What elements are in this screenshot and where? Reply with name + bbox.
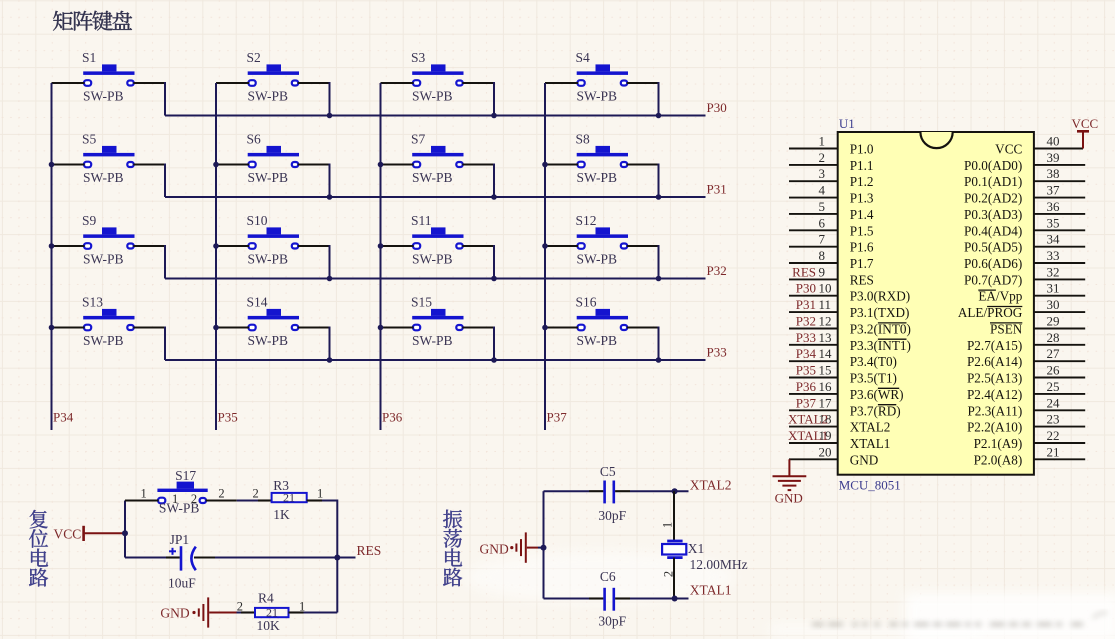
svg-text:20: 20 [819, 444, 832, 459]
junction row bus 3 col 3 [491, 276, 497, 282]
wire: junction to capacitor JP1 [125, 557, 166, 559]
wire: C5 to XTAL2 node [630, 490, 689, 492]
wire: S14 drop to row bus [329, 327, 331, 361]
resistor R3 [272, 478, 307, 522]
svg-text:S8: S8 [576, 132, 591, 147]
svg-text:13: 13 [819, 330, 832, 345]
op: MCU chip U1 body [838, 132, 1034, 475]
svg-text:38: 38 [1047, 166, 1060, 181]
svg-text:SW-PB: SW-PB [248, 88, 289, 103]
svg-text:21: 21 [283, 490, 295, 504]
switch S11 (SW-PB push button) [411, 213, 464, 266]
svg-text:21: 21 [1047, 444, 1060, 459]
capacitor C6 (30pF) [598, 569, 626, 628]
power port VCC (reset) [54, 526, 84, 542]
svg-text:P0.5(AD5): P0.5(AD5) [964, 240, 1022, 255]
svg-text:P33: P33 [707, 345, 727, 360]
wire: S7 left pin lead [381, 163, 414, 165]
svg-text:PSEN: PSEN [990, 322, 1023, 337]
svg-text:4: 4 [819, 183, 826, 198]
pin 19 lead [789, 442, 838, 444]
wire: S16 left pin lead [545, 326, 578, 328]
wire: S10 right pin lead [298, 245, 330, 247]
svg-text:11: 11 [819, 297, 832, 312]
svg-text:P0.4(AD4): P0.4(AD4) [964, 223, 1022, 238]
junction row bus 3 col 2 [327, 276, 333, 282]
junction row bus 1 col 4 [656, 113, 662, 119]
junction col 3 row 2 [378, 162, 384, 168]
svg-text:2: 2 [819, 150, 826, 165]
switch S10 (SW-PB push button) [247, 213, 300, 266]
pin 32 lead [1034, 278, 1085, 280]
pin 35 lead [1034, 229, 1085, 231]
pin 5 lead [789, 213, 838, 215]
junction row bus 2 col 3 [491, 194, 497, 200]
wire: S13 drop to row bus [164, 327, 166, 361]
switch S9 (SW-PB push button) [82, 213, 135, 266]
svg-text:VCC: VCC [1072, 116, 1099, 131]
wire: S17 pin2 lead [206, 499, 237, 501]
pin 15 lead [789, 377, 838, 379]
svg-text:X1: X1 [688, 541, 705, 556]
pin 18 lead [789, 426, 838, 428]
junction row bus 2 col 4 [656, 194, 662, 200]
svg-text:P2.5(A13): P2.5(A13) [967, 371, 1022, 386]
svg-text:S5: S5 [82, 132, 97, 147]
wire: crystal to XTAL1 node [673, 558, 675, 599]
wire: row bus 2 (net P31) [165, 196, 706, 198]
svg-text:S11: S11 [411, 213, 432, 228]
wire: R3 to right vertical, down to RES node [322, 501, 337, 558]
switch S4 (SW-PB push button) [576, 50, 629, 103]
svg-text:XTAL2: XTAL2 [690, 477, 732, 492]
pin 20 lead [789, 458, 838, 460]
svg-text:P2.6(A14): P2.6(A14) [967, 354, 1022, 369]
svg-text:P33: P33 [796, 330, 816, 345]
svg-text:XTAL1: XTAL1 [690, 583, 732, 598]
wire: S6 left pin lead [216, 163, 249, 165]
pin 37 lead [1034, 197, 1085, 199]
wire: column 1 vertical (net P34) [51, 83, 53, 430]
svg-text:SW-PB: SW-PB [577, 170, 618, 185]
junction col 4 row 2 [542, 162, 548, 168]
svg-text:S12: S12 [576, 213, 597, 228]
svg-text:SW-PB: SW-PB [577, 251, 618, 266]
pin 1 lead [789, 148, 838, 150]
power port VCC at pin 40 [1072, 116, 1099, 149]
svg-text:12: 12 [819, 314, 832, 329]
svg-text:P34: P34 [796, 346, 817, 361]
wire: S5 right pin lead [133, 163, 165, 165]
wire: RES node down to R4 row [336, 558, 338, 613]
svg-text:P0.6(AD6): P0.6(AD6) [964, 256, 1022, 271]
wire: S14 right pin lead [298, 326, 330, 328]
svg-text:2: 2 [253, 486, 259, 500]
pin 31 lead [1034, 295, 1085, 297]
wire: S8 drop to row bus [658, 164, 660, 198]
wire: row bus 3 (net P32) [165, 278, 706, 280]
wire: C6 pin lead right [615, 597, 630, 599]
section label 复位电路 (reset circuit) [29, 510, 48, 587]
svg-text:29: 29 [1047, 314, 1060, 329]
ground symbol at pin 20 [773, 476, 807, 490]
svg-text:SW-PB: SW-PB [577, 88, 618, 103]
svg-text:SW-PB: SW-PB [83, 333, 124, 348]
svg-text:P2.4(A12): P2.4(A12) [967, 387, 1022, 402]
svg-text:P1.4: P1.4 [850, 207, 874, 222]
pin 4 lead [789, 197, 838, 199]
wire: ground to R4 (navy segment) [237, 612, 242, 614]
svg-text:RES: RES [357, 543, 382, 558]
junction col 2 row 2 [213, 162, 219, 168]
svg-text:XTAL1: XTAL1 [788, 428, 828, 443]
svg-text:P0.2(AD2): P0.2(AD2) [964, 191, 1022, 206]
wire: row bus 1 (net P30) [165, 115, 706, 117]
pin 2 lead [789, 164, 838, 166]
svg-text:C6: C6 [600, 569, 616, 584]
svg-text:P3.7(RD): P3.7(RD) [850, 403, 901, 418]
svg-text:SW-PB: SW-PB [83, 88, 124, 103]
wire: row bus 4 (net P33) [165, 359, 706, 361]
svg-text:P36: P36 [382, 410, 403, 425]
wire: JP1 to RES node [215, 557, 337, 559]
switch S17 (SW-PB push button) [157, 468, 207, 516]
svg-text:30pF: 30pF [598, 508, 626, 523]
wire: JP1 pin lead right [194, 556, 215, 558]
ground symbol (reset, rotated) [192, 597, 208, 627]
svg-text:P34: P34 [53, 410, 74, 425]
capacitor C5 (30pF) [598, 464, 626, 523]
switch S1 (SW-PB push button) [82, 50, 135, 103]
wire: S7 right pin lead [462, 163, 494, 165]
pin 7 lead [789, 246, 838, 248]
svg-text:SW-PB: SW-PB [83, 170, 124, 185]
wire: S1 left pin lead [52, 82, 85, 84]
capacitor JP1 (polarized, 10uF) [168, 532, 196, 590]
svg-text:P31: P31 [796, 297, 816, 312]
wire: S2 drop to row bus [329, 82, 331, 116]
wire: ground to R4 (red segment) [209, 612, 236, 614]
pin 26 lead [1034, 377, 1085, 379]
svg-text:P2.0(A8): P2.0(A8) [974, 452, 1023, 467]
svg-text:10K: 10K [257, 618, 281, 633]
svg-text:10uF: 10uF [168, 575, 196, 590]
svg-text:2: 2 [237, 600, 243, 614]
svg-text:6: 6 [819, 215, 826, 230]
svg-text:RES: RES [792, 264, 816, 279]
wire: S15 left pin lead [381, 326, 414, 328]
svg-text:33: 33 [1047, 248, 1060, 263]
switch S7 (SW-PB push button) [411, 132, 464, 185]
svg-text:P3.4(T0): P3.4(T0) [850, 354, 897, 369]
wire: S5 drop to row bus [164, 164, 166, 198]
junction col 3 row 4 [378, 325, 384, 331]
svg-text:P3.2(INT0): P3.2(INT0) [850, 322, 911, 337]
junction col 2 row 4 [213, 325, 219, 331]
svg-text:R4: R4 [258, 591, 274, 606]
pin 38 lead [1034, 180, 1085, 182]
switch S8 (SW-PB push button) [576, 132, 629, 185]
wire: VCC to junction [85, 532, 125, 534]
svg-text:1: 1 [299, 600, 305, 614]
svg-text:MCU_8051: MCU_8051 [839, 478, 901, 493]
svg-text:14: 14 [819, 346, 833, 361]
svg-text:1: 1 [819, 134, 826, 149]
wire: JP1 pin lead left [166, 556, 180, 558]
svg-text:P36: P36 [796, 379, 817, 394]
wire: column 4 vertical (net P37) [544, 83, 546, 430]
wire: oscillator left vertical [543, 491, 545, 598]
wire: S4 drop to row bus [658, 82, 660, 116]
junction XTAL1 node [672, 596, 678, 602]
svg-text:34: 34 [1047, 232, 1061, 247]
wire: RES stub [337, 557, 355, 559]
svg-text:35: 35 [1047, 215, 1060, 230]
svg-text:1: 1 [172, 492, 178, 506]
wire: to C6 [544, 598, 590, 600]
wire: S7 drop to row bus [493, 164, 495, 198]
pin 30 lead [1034, 311, 1085, 313]
junction reset-left [122, 530, 128, 536]
svg-text:XTAL2: XTAL2 [850, 420, 891, 435]
pin 40 lead [1034, 148, 1083, 150]
svg-text:1: 1 [141, 486, 147, 500]
junction XTAL2 node [672, 488, 678, 494]
wire: S12 right pin lead [627, 245, 659, 247]
svg-text:GND: GND [775, 491, 803, 506]
svg-text:S4: S4 [576, 50, 591, 65]
junction col 1 row 2 [49, 162, 55, 168]
junction col 4 row 4 [542, 325, 548, 331]
junction row bus 4 col 2 [327, 357, 333, 363]
svg-text:S14: S14 [247, 295, 268, 310]
svg-text:P2.7(A15): P2.7(A15) [967, 338, 1022, 353]
svg-text:P0.0(AD0): P0.0(AD0) [964, 158, 1022, 173]
svg-text:12.00MHz: 12.00MHz [690, 557, 748, 572]
section label 振荡电路 (oscillator circuit) [443, 510, 462, 587]
svg-text:GND: GND [480, 541, 509, 556]
svg-text:36: 36 [1047, 199, 1061, 214]
svg-text:P1.3: P1.3 [850, 191, 874, 206]
wire: to C5 [544, 490, 590, 492]
wire: S17 to R3 [237, 500, 258, 502]
svg-text:P1.1: P1.1 [850, 158, 874, 173]
junction row bus 4 col 4 [656, 357, 662, 363]
wire: S5 left pin lead [52, 163, 85, 165]
pin 28 lead [1034, 344, 1085, 346]
wire: R4 pin2 lead [241, 611, 255, 613]
svg-text:P1.5: P1.5 [850, 223, 874, 238]
pin 29 lead [1034, 328, 1085, 330]
pin 27 lead [1034, 360, 1085, 362]
svg-text:EA/Vpp: EA/Vpp [978, 289, 1022, 304]
svg-text:31: 31 [1047, 281, 1060, 296]
wire: S16 drop to row bus [658, 327, 660, 361]
wire: C6 to XTAL1 node [630, 598, 689, 600]
wire: S3 drop to row bus [493, 82, 495, 116]
pin 21 lead [1034, 458, 1085, 460]
chip notch [920, 132, 952, 148]
wire: C5 pin lead right [615, 490, 630, 492]
svg-text:S16: S16 [576, 295, 597, 310]
svg-text:5: 5 [819, 199, 826, 214]
wire: S9 drop to row bus [164, 245, 166, 279]
switch S15 (SW-PB push button) [411, 295, 464, 348]
svg-text:7: 7 [819, 232, 826, 247]
crystal X1 (12.00MHz) [662, 541, 748, 572]
svg-text:P3.1(TXD): P3.1(TXD) [850, 305, 910, 320]
svg-text:9: 9 [819, 264, 826, 279]
svg-text:ALE/PROG: ALE/PROG [958, 305, 1023, 320]
wire: XTAL2 node down to crystal [673, 491, 675, 541]
wire: S11 left pin lead [381, 245, 414, 247]
wire: S9 right pin lead [133, 245, 165, 247]
svg-text:GND: GND [160, 606, 189, 621]
svg-text:P2.2(A10): P2.2(A10) [967, 420, 1022, 435]
junction col 2 row 3 [213, 243, 219, 249]
svg-text:23: 23 [1047, 412, 1060, 427]
svg-text:XTAL2: XTAL2 [788, 412, 828, 427]
wire: S11 right pin lead [462, 245, 494, 247]
wire: R4 pin1 lead [289, 611, 304, 613]
svg-text:1K: 1K [273, 507, 290, 522]
pin 6 lead [789, 229, 838, 231]
svg-text:GND: GND [850, 452, 879, 467]
svg-text:U1: U1 [839, 116, 855, 131]
pin 33 lead [1034, 262, 1085, 264]
svg-text:P32: P32 [707, 263, 727, 278]
svg-text:2: 2 [218, 486, 224, 500]
svg-text:S3: S3 [411, 50, 426, 65]
wire: S13 left pin lead [52, 326, 85, 328]
svg-text:P2.3(A11): P2.3(A11) [967, 403, 1022, 418]
wire: S6 right pin lead [298, 163, 330, 165]
svg-text:S10: S10 [247, 213, 268, 228]
svg-text:SW-PB: SW-PB [577, 333, 618, 348]
svg-text:P0.1(AD1): P0.1(AD1) [964, 174, 1022, 189]
svg-text:1: 1 [660, 522, 674, 528]
svg-text:P1.6: P1.6 [850, 240, 874, 255]
wire: S10 left pin lead [216, 245, 249, 247]
wire: S15 drop to row bus [493, 327, 495, 361]
svg-text:16: 16 [819, 379, 833, 394]
svg-text:P3.0(RXD): P3.0(RXD) [850, 289, 910, 304]
pin 13 lead [789, 344, 838, 346]
junction row bus 3 col 4 [656, 276, 662, 282]
wire: pin 20 to ground [788, 459, 790, 476]
svg-text:S17: S17 [175, 468, 196, 483]
svg-text:S13: S13 [82, 295, 103, 310]
svg-text:P37: P37 [796, 395, 817, 410]
junction oscillator-left [541, 545, 547, 551]
wire: reset left vertical [124, 501, 126, 558]
svg-text:32: 32 [1047, 264, 1060, 279]
svg-text:8: 8 [819, 248, 826, 263]
svg-text:P0.3(AD3): P0.3(AD3) [964, 207, 1022, 222]
svg-text:P37: P37 [547, 410, 568, 425]
junction col 3 row 3 [378, 243, 384, 249]
svg-text:P1.0: P1.0 [850, 142, 874, 157]
svg-text:S15: S15 [411, 295, 432, 310]
wire: S2 left pin lead [216, 82, 249, 84]
svg-text:P35: P35 [218, 410, 238, 425]
wire: R3 pin1 lead [307, 499, 322, 501]
pin 36 lead [1034, 213, 1085, 215]
svg-text:SW-PB: SW-PB [412, 251, 453, 266]
wire: ground to junction (red segment) [527, 547, 538, 549]
svg-text:JP1: JP1 [170, 532, 190, 547]
wire: S10 drop to row bus [329, 245, 331, 279]
svg-text:S9: S9 [82, 213, 97, 228]
svg-text:30: 30 [1047, 297, 1060, 312]
wire: C5 pin lead left [589, 490, 603, 492]
switch S2 (SW-PB push button) [247, 50, 300, 103]
switch S16 (SW-PB push button) [576, 295, 629, 348]
pin 11 lead [789, 311, 838, 313]
junction row bus 4 col 3 [491, 357, 497, 363]
ground symbol (oscillator, rotated) [510, 532, 526, 562]
pin 9 lead [789, 278, 838, 280]
wire: S8 left pin lead [545, 163, 578, 165]
svg-text:P3.5(T1): P3.5(T1) [850, 371, 897, 386]
svg-text:P3.3(INT1): P3.3(INT1) [850, 338, 911, 353]
svg-text:SW-PB: SW-PB [248, 333, 289, 348]
svg-text:P31: P31 [707, 182, 727, 197]
wire: S12 left pin lead [545, 245, 578, 247]
wire: S16 right pin lead [627, 326, 659, 328]
pin 24 lead [1034, 409, 1085, 411]
faint watermark dashes [812, 613, 1107, 626]
wire: S8 right pin lead [627, 163, 659, 165]
wire: S17 pin1 lead [125, 499, 158, 501]
junction col 1 row 3 [49, 243, 55, 249]
svg-text:SW-PB: SW-PB [248, 251, 289, 266]
switch S13 (SW-PB push button) [82, 295, 135, 348]
pin 3 lead [789, 180, 838, 182]
resistor R4 [255, 591, 289, 634]
svg-text:40: 40 [1047, 134, 1060, 149]
wire: S1 drop to row bus [164, 82, 166, 116]
pin 16 lead [789, 393, 838, 395]
svg-text:SW-PB: SW-PB [412, 88, 453, 103]
svg-text:P35: P35 [796, 363, 816, 378]
junction row bus 2 col 2 [327, 194, 333, 200]
pin 25 lead [1034, 393, 1085, 395]
wire: column 3 vertical (net P36) [380, 83, 382, 430]
pin 22 lead [1034, 442, 1085, 444]
wire: S3 left pin lead [381, 82, 414, 84]
wire: S4 right pin lead [627, 82, 659, 84]
svg-text:S1: S1 [82, 50, 96, 65]
svg-text:P30: P30 [707, 100, 727, 115]
wire: S11 drop to row bus [493, 245, 495, 279]
wire: S2 right pin lead [298, 82, 330, 84]
wire: S14 left pin lead [216, 326, 249, 328]
svg-text:1: 1 [317, 486, 323, 500]
svg-text:SW-PB: SW-PB [248, 170, 289, 185]
switch S12 (SW-PB push button) [576, 213, 629, 266]
wire: S9 left pin lead [52, 245, 85, 247]
pin 8 lead [789, 262, 838, 264]
svg-text:RES: RES [850, 272, 874, 287]
switch S3 (SW-PB push button) [411, 50, 464, 103]
svg-text:26: 26 [1047, 363, 1061, 378]
switch S14 (SW-PB push button) [247, 295, 300, 348]
junction row bus 1 col 3 [491, 113, 497, 119]
svg-text:C5: C5 [600, 464, 616, 479]
svg-text:30pF: 30pF [598, 613, 626, 628]
pin 23 lead [1034, 426, 1085, 428]
